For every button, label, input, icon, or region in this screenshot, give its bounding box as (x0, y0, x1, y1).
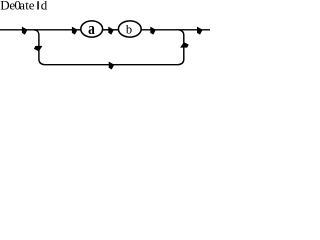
wire: bottom bypass line (45, 64, 179, 66)
arrow right between a and b (108, 27, 114, 35)
svg-text:a: a (88, 20, 95, 39)
svg-text:De0ate: De0ate (0, 0, 35, 13)
svg-text:d: d (41, 0, 48, 13)
wire: left bypass connector (down) (34, 30, 45, 65)
arrow right at end of main line (197, 27, 203, 35)
title letter I (bar) (37, 1, 39, 9)
arrow up on right connector (180, 42, 189, 48)
terminal oval b (118, 21, 141, 37)
wire: main line left segment (0, 29, 81, 31)
arrow right after oval b (150, 27, 156, 35)
arrow down on left connector (34, 46, 43, 52)
terminal oval a (81, 21, 103, 37)
wire: main line right segment (142, 29, 211, 31)
wire: main line between ovals (103, 29, 118, 31)
svg-text:b: b (126, 23, 132, 37)
arrow right on main line near start (22, 27, 28, 35)
arrow right before oval a (72, 27, 78, 35)
wire: right bypass connector (up) (178, 30, 184, 65)
arrow right on bottom line (109, 62, 115, 70)
